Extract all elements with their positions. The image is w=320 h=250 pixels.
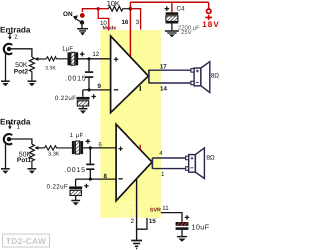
watermark circle inside IC [122,203,141,222]
wire pin 15 stub [137,218,147,229]
pin 10 label [100,20,107,27]
wire pin 16 (Vcc) red vertical [129,2,131,57]
wire switch to junction [82,9,98,12]
A1 minus input sign [114,89,118,91]
A2 output bar [151,158,153,169]
ground (pot 2) [28,169,37,174]
pin 3 tick on A2 [139,145,141,150]
label 8 ohm (SP1) [211,73,220,80]
label 50K Pot2 [14,62,29,76]
node junction pin9/.0015 [87,88,90,91]
wire pin 17 to speaker [149,69,191,71]
ground (C4) [165,31,179,37]
node junction pin12/.0015 [87,57,90,60]
capacitor C4 [165,2,186,30]
resistor R1 3.3K [46,57,67,61]
svg-text:Mode: Mode [102,26,116,32]
pin 15 label [149,218,156,225]
wire pin 10 Mode [98,9,109,31]
svg-text:10K: 10K [107,0,120,8]
label C4 value [178,24,200,36]
net Mode label [102,26,116,32]
wire pin 4 to speaker [152,157,185,159]
label 2 (input) [14,33,18,40]
svg-text:.0015: .0015 [64,167,86,174]
svg-text:17: 17 [160,64,167,71]
A1 output bar [148,70,150,84]
ground (0.22uF ch1) [79,109,88,114]
pin 8 label [103,173,107,180]
ground (pins 2/15 main) [131,241,142,250]
capacitor 0.22uF (ch2) [47,179,89,200]
svg-text:12: 12 [92,51,99,58]
svg-text:18V: 18V [202,20,219,29]
speaker SP1 [191,62,210,93]
wire jack to pot 2 [9,139,32,144]
svg-text:2: 2 [130,218,134,225]
wire pin 9 net [83,89,111,91]
ground (jack 2) [1,169,10,174]
svg-text:Entrada: Entrada [0,25,31,34]
capacitor 1uF (ch1) [62,45,85,65]
ground (jack 1) [1,81,10,86]
svg-text:Pot2: Pot2 [14,68,29,75]
capacitor 0.22uF (ch1) [55,90,96,109]
pin 6 label [98,141,102,148]
speaker SP2 [186,148,205,179]
svg-text:8Ω: 8Ω [211,73,219,80]
ground (0.22uF ch2) [71,201,80,206]
potentiometer Pot1 50K [29,144,44,168]
svg-text:3: 3 [136,19,140,26]
A2 minus input sign [118,178,122,180]
svg-text:0.22uF: 0.22uF [55,95,76,102]
capacitor 1uF (ch2) [70,132,90,154]
svg-text:3.3K: 3.3K [45,65,56,71]
label 3.3K (ch2) [48,151,60,157]
wire jack ground stem [5,54,7,80]
wire jack to pot [9,49,32,57]
svg-text:1µF: 1µF [62,45,73,52]
wire +18V rail [130,1,208,3]
op-amp A1 (top) [111,36,149,113]
svg-text:1: 1 [161,171,165,178]
svg-text:C4: C4 [177,6,186,13]
node +18V terminal [202,2,220,29]
pin 4 label [159,150,163,157]
pin 3 label [136,19,140,26]
wire jack 2 ground stem [5,144,7,168]
pin tick under A1 [139,86,141,91]
wire pin 2 to ground [136,179,138,240]
node junction switch/pin10 [97,7,100,10]
capacitor .0015 (ch1) [65,59,93,90]
net SVR label [150,207,161,213]
potentiometer Pot2 50K [29,57,46,80]
wire pin 8 net [76,178,117,180]
connector J2 (RCA jack) [4,44,12,54]
ground (10uF) [177,237,187,242]
svg-text:3.3K: 3.3K [48,151,60,157]
svg-text:25V: 25V [181,29,192,36]
label 10K [107,0,120,8]
pin 16 label [121,19,128,26]
svg-text:SVR: SVR [150,207,161,213]
svg-text:.0015: .0015 [65,75,87,82]
label 3.3K [45,65,56,71]
pin 9 label [97,83,101,90]
switch SW1 ON [63,11,85,28]
svg-text:10uF: 10uF [192,223,210,232]
pin 17 label [160,64,167,71]
A2 plus input sign [118,147,122,151]
IC U1 body [100,30,161,218]
svg-text:Pot1: Pot1 [17,157,32,164]
svg-text:8: 8 [103,173,107,180]
pin 1 arrow (input marker) [8,123,13,129]
svg-text:8Ω: 8Ω [206,154,215,161]
label 1 (input) [17,124,21,131]
pin 1 label [161,171,165,178]
watermark TD2-CAW [3,234,50,247]
svg-text:15: 15 [149,218,156,225]
pin 12 label [92,51,99,58]
A1 plus input sign [114,57,118,61]
svg-text:9: 9 [97,83,101,90]
capacitor .0015 (ch2) [64,148,94,179]
pin 11 label [162,205,169,212]
resistor R2 3.3K [45,146,72,150]
node junction pin6/.0015 [89,146,92,149]
pin 2 arrow (input marker) [8,33,13,39]
wire pin 14 to speaker [149,82,191,84]
svg-text:16: 16 [121,19,128,26]
channel 1 input label Entrada [0,25,31,34]
node junction pin8/.0015 [89,178,92,181]
svg-text:11: 11 [162,205,169,212]
op-amp A2 (bottom) [116,124,152,201]
ground (switch) [77,29,88,36]
svg-text:0.22uF: 0.22uF [47,184,68,191]
resistor 10K [98,6,130,11]
svg-text:ON: ON [63,11,73,18]
svg-text:14: 14 [160,85,167,92]
capacitor 10uF (SVR) [176,215,210,236]
ground (pot 1) [28,81,37,86]
svg-text:6: 6 [98,141,102,148]
channel 2 input label Entrada [0,117,31,126]
wire 1uF to pin 12 [78,58,110,60]
svg-text:Entrada: Entrada [0,117,31,126]
label 50K Pot1 [17,151,32,164]
node junction 10K/pin16 [129,7,133,11]
wire 1uF to pin 6 [83,147,116,149]
label 8 ohm (SP2) [206,154,215,161]
svg-text:1 µF: 1 µF [70,132,84,139]
wire pin 11 to C SVR [161,213,182,222]
svg-text:TD2-CAW: TD2-CAW [6,236,46,246]
svg-text:4: 4 [159,150,163,157]
pin 2 label [130,218,134,225]
pin 14 label [160,85,167,92]
connector J1 (RCA jack) [4,134,12,144]
wire pin 3 (Vcc2) [130,9,140,30]
wire pin 1 to speaker [152,168,185,170]
